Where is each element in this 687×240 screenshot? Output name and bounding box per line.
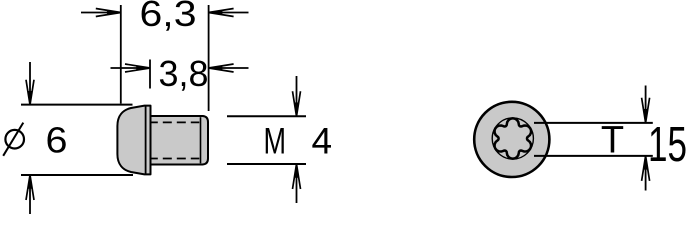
svg-text:6: 6 — [46, 120, 68, 161]
svg-text:15: 15 — [648, 118, 687, 172]
svg-text:4: 4 — [312, 121, 333, 162]
svg-text:M: M — [264, 121, 287, 162]
svg-text:6,3: 6,3 — [140, 0, 197, 34]
svg-text:T: T — [601, 120, 624, 162]
svg-text:3,8: 3,8 — [159, 53, 209, 94]
